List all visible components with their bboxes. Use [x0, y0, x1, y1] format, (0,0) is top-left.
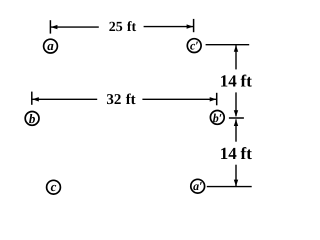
wire : horizontal reference line right of node c' [206, 44, 250, 46]
dimension 32 ft : right arrowhead [210, 97, 217, 101]
dimension 14 ft (upper) : lower wire segment [235, 92, 237, 116]
svg-text:c′: c′ [190, 38, 199, 52]
dimension 25 ft : right wire segment [144, 26, 194, 28]
dimension 32 ft : left extension tick [31, 92, 33, 105]
svg-text:ft: ft [241, 72, 253, 91]
svg-text:32: 32 [106, 92, 121, 108]
svg-text:ft: ft [241, 144, 253, 163]
dimension 32 ft : right wire segment [142, 98, 216, 100]
node c [47, 179, 61, 194]
dimension 25 ft : left wire segment [50, 26, 98, 28]
node b' [210, 111, 224, 125]
svg-text:a′: a′ [193, 179, 202, 193]
dimension 25 ft : left arrowhead [51, 25, 58, 29]
dimension 32 ft : right extension tick [216, 93, 218, 106]
dimension 25 ft : right extension tick [193, 19, 195, 32]
node c' [187, 38, 201, 52]
svg-text:14: 14 [220, 144, 238, 163]
junction tick between the two 14 ft dimensions [229, 117, 244, 119]
dimension 14 ft (lower) : lower wire segment [235, 165, 237, 187]
dimension 14 ft (upper) : upper wire segment [235, 45, 237, 69]
node a' [191, 179, 205, 193]
wire : horizontal reference line right of node a' [207, 186, 252, 188]
svg-text:b′: b′ [213, 111, 222, 125]
svg-text:25: 25 [109, 20, 123, 35]
node a [44, 38, 58, 53]
dimension 14 ft (lower) : down arrowhead [234, 180, 238, 187]
dimension 14 ft (upper) : up arrowhead [234, 45, 238, 52]
dimension 14 ft (upper) : down arrowhead [234, 110, 238, 117]
svg-text:c: c [51, 179, 57, 194]
svg-text:14: 14 [220, 72, 238, 91]
dimension 14 ft (lower) : upper wire segment [235, 119, 237, 141]
svg-text:ft: ft [126, 92, 136, 108]
dimension 25 ft : left extension tick [49, 20, 51, 33]
svg-text:ft: ft [127, 20, 137, 35]
dimension 14 ft (lower) : up arrowhead [234, 119, 238, 126]
node b [25, 111, 39, 126]
dimension 32 ft : left wire segment [32, 98, 97, 100]
dimension 25 ft : right arrowhead [187, 24, 194, 28]
dimension 32 ft : left arrowhead [32, 97, 39, 101]
svg-text:a: a [47, 38, 54, 53]
svg-text:b: b [29, 111, 36, 126]
